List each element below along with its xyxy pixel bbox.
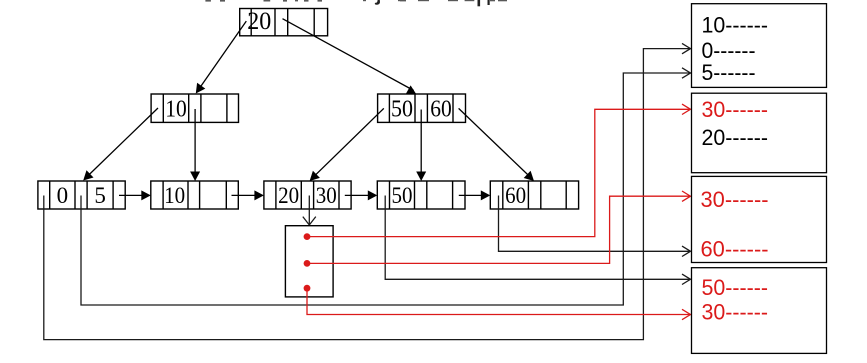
route leaf50 ptr -> record 50 [385,196,690,280]
arrowhead chain4 [481,190,491,200]
edge node10 ptr2 -> leaf 10 [194,109,196,177]
leaf node 10 box [151,181,239,209]
svg-text:50: 50 [392,183,413,208]
edge node50|60 ptr1 -> leaf 20|30 [313,108,384,177]
leaf node 0|5 box [38,181,125,209]
edge root ptr1 -> node 10 [199,21,247,90]
chain leaf 0|5 -> leaf 10 [119,194,146,196]
bucket entry dot 3 [304,285,311,292]
svg-text:30: 30 [316,183,337,208]
leaf node 50 box [377,181,465,209]
svg-text:50------: 50------ [702,275,769,300]
arrow leaf20|30 ptr2 -> bucket (open head) [308,196,310,226]
arrowhead node10->leaf0|5 [83,170,93,180]
arrowhead node10->leaf10 [190,172,200,182]
leaf node 20|30 box [264,181,351,209]
edge node50|60 ptr3 -> leaf 60 [459,108,531,177]
title fragments (cropped heading along top edge) [205,0,507,6]
chain leaf 50 -> leaf 60 [459,194,486,196]
arrowhead chain2 [254,190,264,200]
chain leaf 20|30 -> leaf 50 [345,194,373,196]
svg-text:60: 60 [505,183,526,208]
svg-text:30------: 30------ [701,187,769,212]
edge node10 ptr1 -> leaf 0|5 [87,108,158,177]
internal node 50|60 box [378,94,466,122]
svg-text:60: 60 [430,96,452,122]
record page 4 [692,268,827,354]
red route dot3 -> record 30 (box4) [307,288,691,314]
edge root ptr3 -> node 50|60 [283,19,414,91]
svg-text:20: 20 [278,183,299,208]
chain leaf 10 -> leaf 20|30 [232,194,260,196]
arrowhead root->node10 [196,83,206,94]
root node box [240,9,328,36]
arrowhead node50|60->leaf50 [416,172,426,182]
svg-text:10: 10 [164,183,185,208]
arrowhead chain1 [141,190,151,200]
route leaf0|5 ptr "5" -> record 5 [81,73,691,305]
route leaf60 ptr -> record 60 [499,196,691,252]
leaf node 60 box [490,181,578,209]
svg-text:10: 10 [165,96,187,122]
bucket entry dot 2 [304,260,311,267]
bucket box [285,226,333,297]
route leaf0|5 ptr "0" -> record 0 [44,49,691,340]
bucket entry dot 1 [304,233,311,240]
record page 1 [692,4,827,88]
svg-text:30------: 30------ [702,97,769,122]
svg-text:5: 5 [94,183,106,208]
svg-text:10------: 10------ [702,12,769,37]
internal node 10 box [151,94,238,122]
svg-text:30------: 30------ [702,300,769,325]
svg-text:0: 0 [57,183,69,208]
arrowhead chain3 [368,190,378,200]
edge node50|60 ptr2 -> leaf 50 [420,110,422,177]
arrowhead root->node50|60 [406,85,417,94]
record page 2 [692,93,827,173]
svg-text:20: 20 [247,6,271,35]
arrowhead node50|60->leaf60 [524,171,534,181]
red route dot2 -> record 30 (box3) [307,196,691,263]
svg-text:20------: 20------ [702,125,769,150]
svg-text:50: 50 [391,96,413,122]
arrowhead node50|60->leaf20|30 [310,171,320,181]
node key labels [57,6,526,208]
red route dot1 -> record 30 (box2) [307,109,691,236]
svg-text:60------: 60------ [701,237,769,262]
svg-text:5------: 5------ [702,60,756,85]
record page 3 [692,176,827,262]
